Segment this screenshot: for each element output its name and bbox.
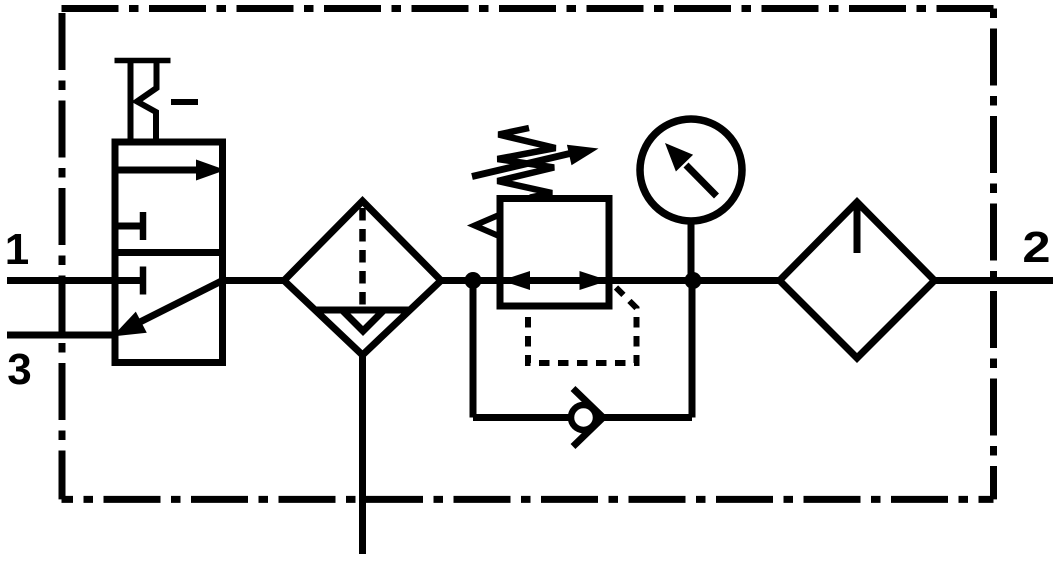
wire lubricator to port 2 [935, 277, 1054, 284]
regulator adjustment arrow [472, 145, 599, 177]
shut-off valve V1 body [115, 142, 223, 363]
junction node B [685, 272, 702, 289]
valve blocked port lower T bar [140, 267, 147, 295]
filter element dashed centerline [359, 208, 366, 309]
gauge stem wire [688, 222, 695, 281]
bypass wire left branch [470, 281, 477, 418]
svg-text:3: 3 [7, 345, 31, 394]
bypass wire bottom right [604, 414, 693, 421]
enclosure boundary (dash-dot frame) [62, 9, 994, 500]
main wire filter to lubricator [441, 277, 780, 284]
regulator arrow right [580, 271, 609, 290]
filter with water separator F1 [284, 201, 441, 355]
junction node A [465, 272, 482, 289]
svg-text:1: 1 [5, 225, 29, 274]
wire valve to filter [223, 277, 287, 284]
valve manual detent actuator [115, 58, 199, 142]
svg-text:2: 2 [1022, 223, 1050, 272]
pressure regulator body [500, 199, 609, 307]
lubricator L1 [780, 202, 935, 358]
regulator relief vent triangle [475, 215, 501, 237]
valve exhaust arrow (2 to 3) [113, 281, 223, 337]
pressure gauge [640, 119, 742, 221]
bypass wire bottom left [473, 414, 583, 421]
port 3 wire [7, 332, 116, 339]
regulator arrow left [501, 271, 530, 290]
valve flow arrow (1 to 2) [115, 160, 226, 181]
bypass wire right branch [689, 281, 696, 418]
filter drain line [359, 355, 366, 554]
regulator adjustment spring [498, 128, 556, 198]
valve blocked port upper T [115, 212, 143, 240]
check valve [571, 389, 603, 447]
regulator pilot line (dashed) [528, 288, 637, 364]
port 1 wire [7, 277, 140, 284]
